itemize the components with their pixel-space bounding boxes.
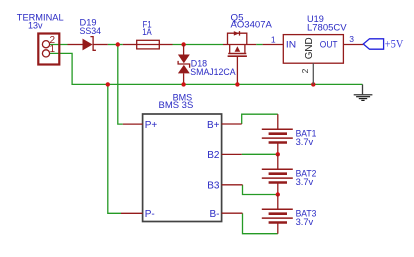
wire: BMS B+ up and over to BAT1 top bbox=[242, 114, 278, 124]
svg-text:B-: B- bbox=[210, 209, 220, 220]
BMS module box bbox=[143, 114, 222, 222]
junction: ground rail / U19 GND bbox=[311, 82, 315, 86]
power flag +5V bbox=[363, 39, 383, 49]
svg-text:IN: IN bbox=[286, 40, 296, 51]
wire: D19 cathode to fuse F1 bbox=[108, 44, 123, 46]
battery BAT2 bbox=[262, 154, 293, 194]
pin stub B- bbox=[222, 212, 243, 214]
wire: terminal pin1 to ground rail (down + across) bbox=[50, 53, 363, 84]
svg-text:3.7v: 3.7v bbox=[296, 177, 314, 188]
svg-text:SS34: SS34 bbox=[80, 26, 102, 37]
battery BAT3 bbox=[262, 195, 293, 234]
svg-text:SMAJ12CA: SMAJ12CA bbox=[190, 67, 236, 78]
svg-text:B+: B+ bbox=[207, 120, 220, 131]
fuse F1 bbox=[123, 40, 173, 49]
svg-text:13v: 13v bbox=[28, 20, 43, 31]
junction: ground rail / P- branch bbox=[106, 82, 110, 86]
pin stub P+ bbox=[123, 123, 143, 125]
junction: ground rail / Q5 gate bbox=[235, 82, 239, 86]
wire: BMS B2 to BAT1/BAT2 node bbox=[242, 153, 278, 155]
svg-text:3.7v: 3.7v bbox=[296, 137, 314, 148]
svg-text:3.7v: 3.7v bbox=[296, 217, 314, 228]
svg-text:P-: P- bbox=[145, 209, 155, 220]
wire: fuse F1 to Q5 source bbox=[173, 44, 224, 46]
wire: terminal pin2 to D19 anode bbox=[50, 44, 68, 46]
svg-text:2: 2 bbox=[300, 68, 310, 73]
svg-text:OUT: OUT bbox=[320, 40, 338, 51]
svg-text:P+: P+ bbox=[145, 120, 158, 131]
svg-text:+5V: +5V bbox=[385, 36, 404, 50]
wire: BMS B3 to BAT2/BAT3 node bbox=[243, 185, 278, 195]
ground symbol bbox=[354, 84, 373, 100]
transistor Q5 (P-MOSFET AO3407A) bbox=[223, 31, 256, 84]
junction: ground rail / D18 bbox=[181, 82, 185, 86]
wire: BMS B- to BAT3 bottom bbox=[243, 213, 278, 234]
pin stub B2 bbox=[222, 153, 242, 155]
regulator U19 L7805CV bbox=[263, 35, 364, 85]
svg-text:BMS 3S: BMS 3S bbox=[159, 100, 194, 111]
svg-text:1: 1 bbox=[271, 35, 276, 45]
svg-text:B2: B2 bbox=[207, 150, 220, 161]
svg-text:AO3407A: AO3407A bbox=[231, 20, 273, 31]
svg-text:1A: 1A bbox=[142, 27, 152, 38]
terminal TERMINAL 13v connector bbox=[38, 34, 59, 65]
junction: BAT2/BAT3 node bbox=[276, 192, 280, 196]
svg-text:GND: GND bbox=[304, 37, 315, 59]
junction: fuse/D18 node bbox=[181, 42, 185, 46]
junction: BAT1/BAT2 node bbox=[276, 152, 280, 156]
svg-text:L7805CV: L7805CV bbox=[307, 23, 347, 34]
wire: Q5 drain to U19 IN bbox=[256, 44, 262, 46]
svg-text:1: 1 bbox=[50, 44, 56, 55]
svg-text:3: 3 bbox=[349, 34, 354, 44]
pin stub B+ bbox=[222, 123, 242, 125]
wire: ground rail down to BMS P- bbox=[108, 84, 121, 213]
battery BAT1 bbox=[262, 114, 293, 154]
pin stub P- bbox=[121, 212, 143, 214]
pin stub B3 bbox=[222, 184, 243, 186]
wire: 13v rail down to BMS P+ bbox=[118, 45, 123, 125]
junction: D19 cathode node bbox=[116, 42, 120, 46]
TVS diode D18 (SMAJ12CA) bbox=[178, 45, 190, 85]
diode D19 (Schottky SS34) bbox=[68, 37, 108, 51]
svg-text:B3: B3 bbox=[207, 181, 220, 192]
